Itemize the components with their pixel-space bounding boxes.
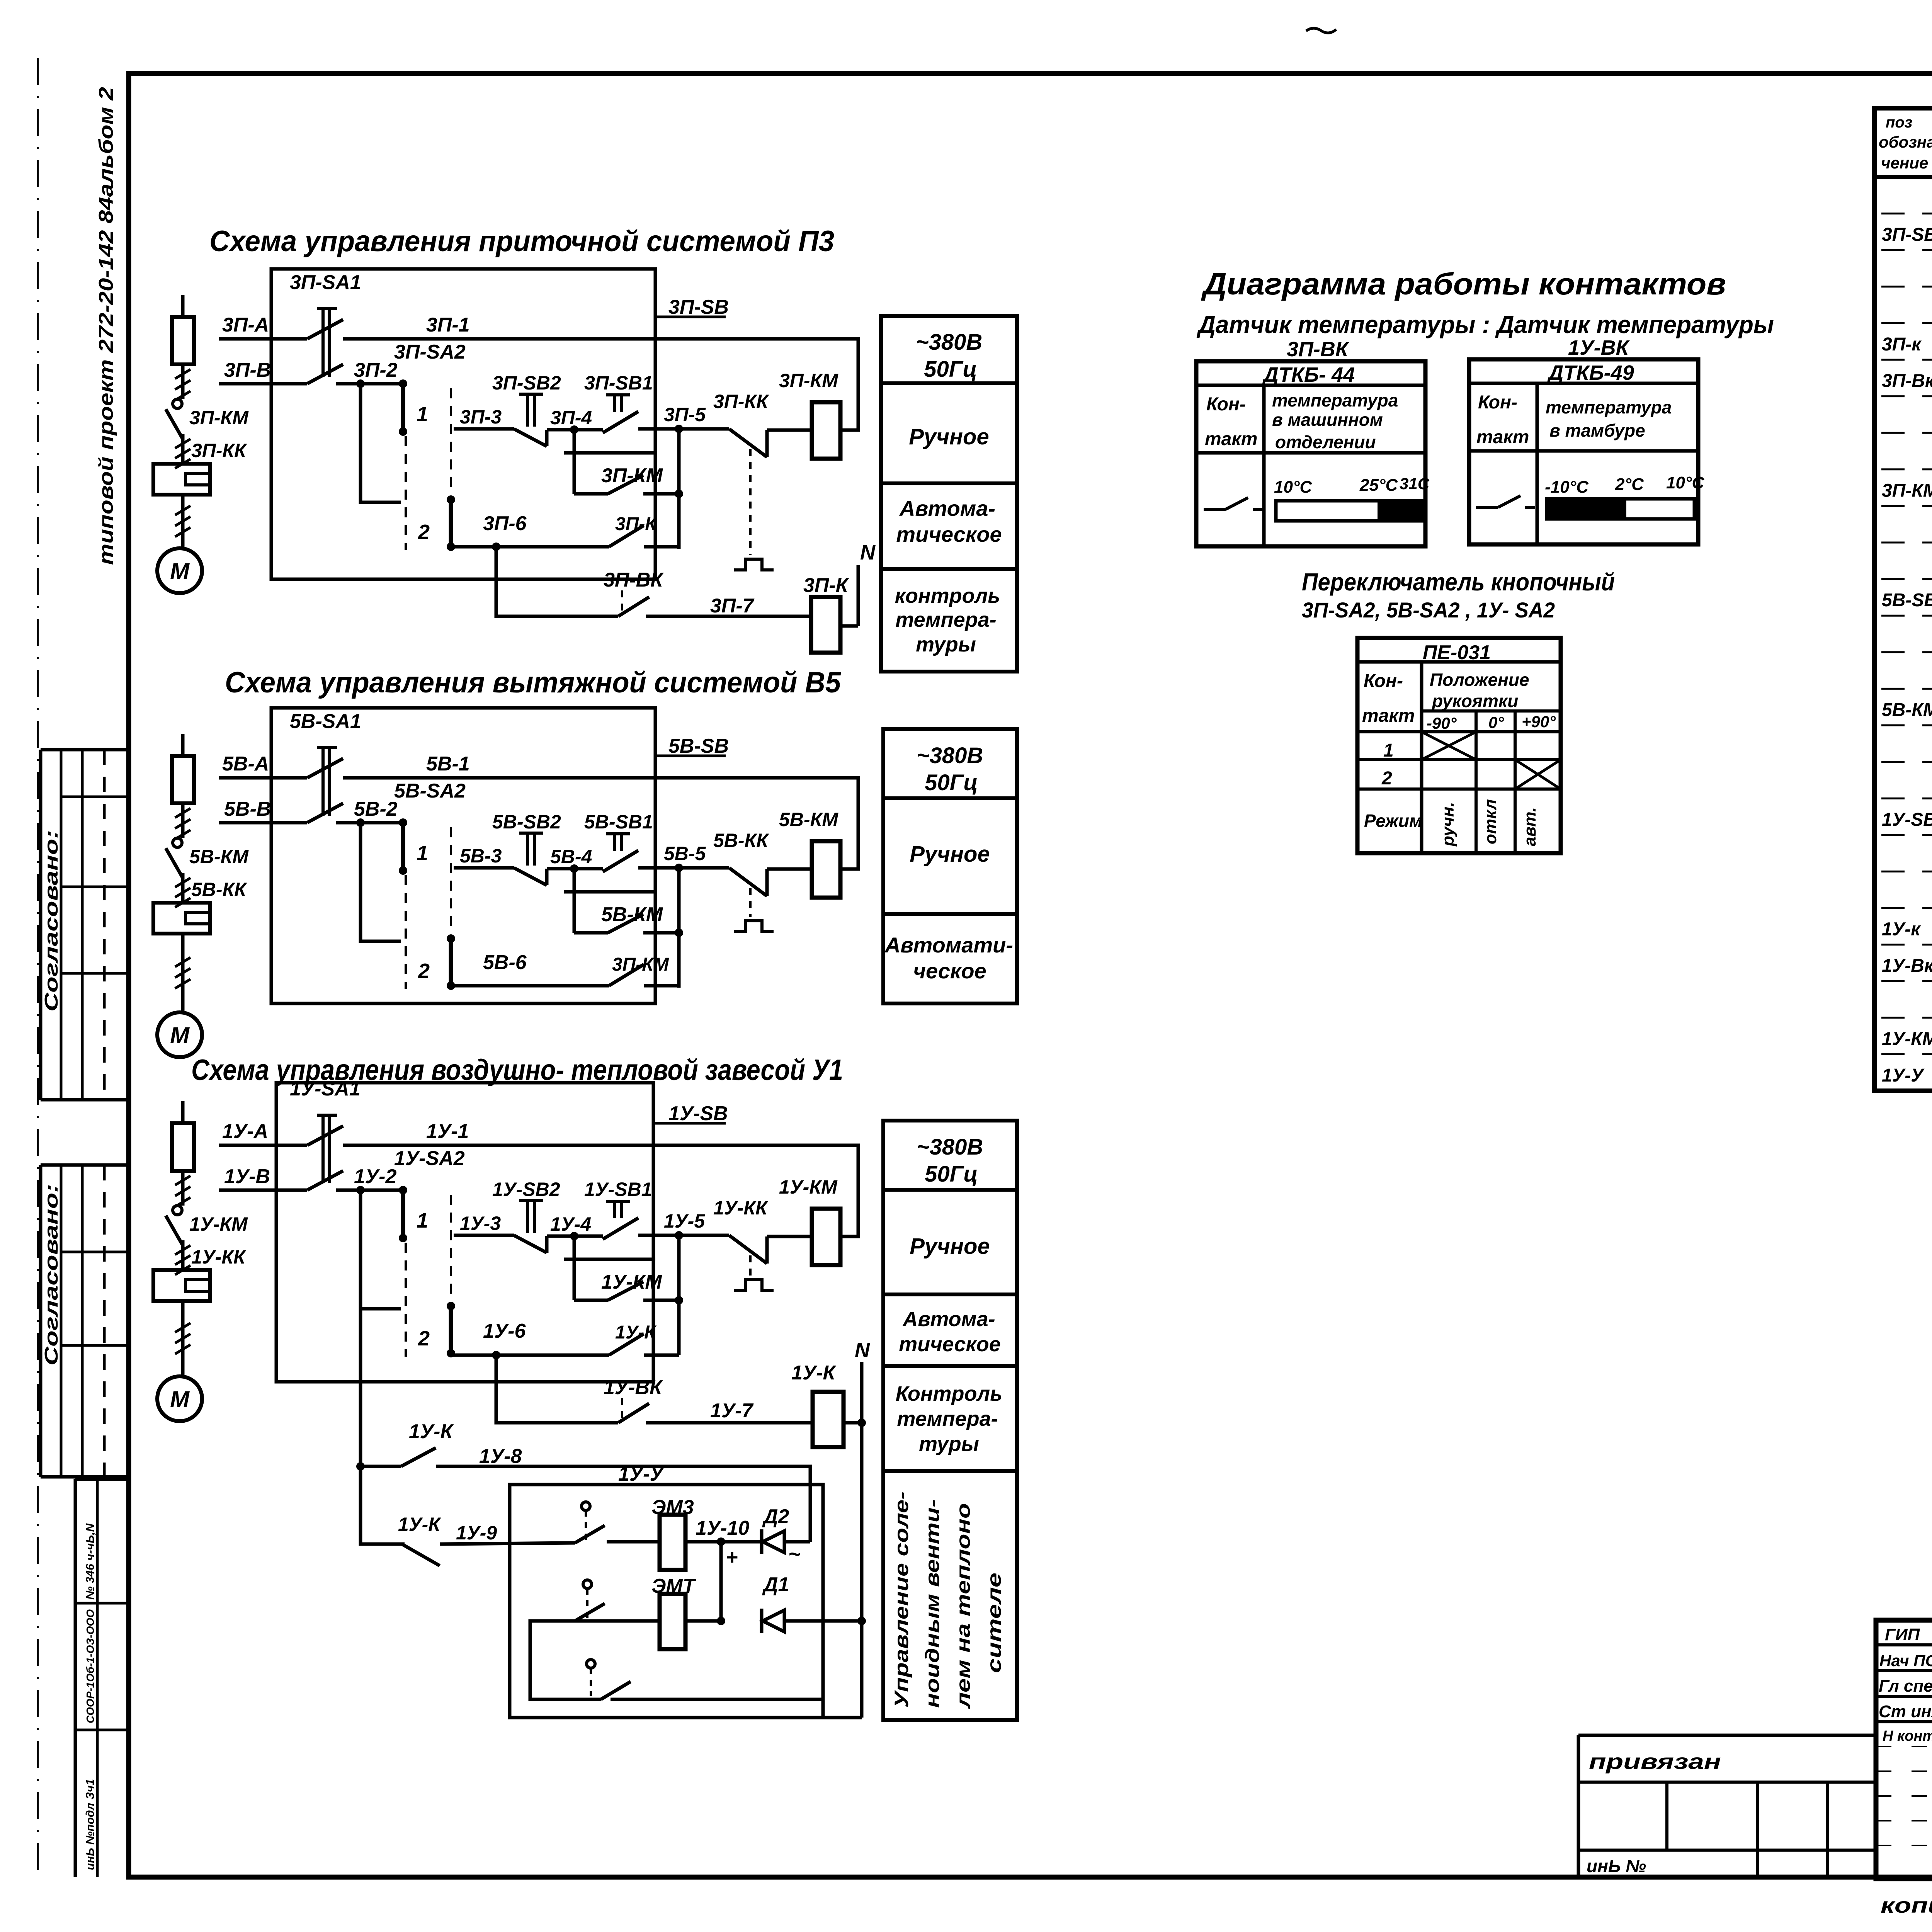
switch SA1 linkage bars bbox=[321, 748, 325, 816]
manual release symbol bbox=[734, 921, 774, 932]
table row separator (dashed) bbox=[1881, 651, 1932, 653]
svg-text:2: 2 bbox=[1381, 768, 1392, 789]
dashed link to release bbox=[749, 449, 752, 555]
push-button plunger bbox=[519, 1199, 543, 1202]
sensor table ДТКБ-49 bbox=[1469, 359, 1698, 544]
svg-text:3П-SA2, 5В-SA2 , 1У- SA2: 3П-SA2, 5В-SA2 , 1У- SA2 bbox=[1302, 598, 1555, 622]
svg-text:1У-КМ: 1У-КМ bbox=[779, 1176, 838, 1198]
svg-text:1У-SB1: 1У-SB1 bbox=[584, 1179, 652, 1200]
svg-text:0°: 0° bbox=[1488, 713, 1504, 731]
hook contact bbox=[173, 1206, 182, 1215]
SA1 blade phase B bbox=[307, 364, 343, 384]
approval block 2 (Согласовано) bbox=[41, 1163, 129, 1167]
valve limit switch a bbox=[582, 1502, 590, 1510]
svg-text:1У-9: 1У-9 bbox=[456, 1522, 497, 1544]
table row separator (dashed) bbox=[1881, 980, 1932, 982]
svg-text:поз: поз bbox=[1886, 114, 1912, 131]
table row separator (dashed) bbox=[1881, 468, 1932, 470]
svg-text:5В-КМ: 5В-КМ bbox=[601, 903, 663, 926]
svg-text:5В-3: 5В-3 bbox=[460, 845, 502, 867]
wire bbox=[181, 1247, 185, 1270]
wire bbox=[181, 434, 185, 440]
motor M bbox=[157, 1012, 202, 1057]
svg-text:5В-5: 5В-5 bbox=[664, 843, 706, 864]
scale bar with black zone bbox=[1547, 499, 1694, 519]
thermal contact blade bbox=[729, 868, 767, 896]
table row separator (dashed) bbox=[1881, 1053, 1932, 1055]
svg-text:1У-6: 1У-6 bbox=[483, 1320, 526, 1342]
dashed link to release bbox=[749, 1255, 752, 1276]
svg-text:Ручное: Ручное bbox=[910, 1234, 990, 1259]
svg-text:N: N bbox=[860, 541, 876, 564]
svg-text:3П-к: 3П-к bbox=[1882, 334, 1922, 355]
svg-text:3П-КМ: 3П-КМ bbox=[779, 370, 838, 391]
manual release symbol bbox=[734, 1280, 774, 1291]
selector table ПЕ-031 bbox=[1357, 638, 1561, 853]
switch SA1 linkage bars bbox=[321, 1116, 325, 1183]
svg-text:тическое: тическое bbox=[896, 522, 1002, 546]
push-button NO blade bbox=[603, 412, 638, 433]
svg-text:3П-SB: 3П-SB bbox=[668, 296, 729, 318]
svg-text:5В-4: 5В-4 bbox=[550, 846, 592, 867]
svg-text:обозна-: обозна- bbox=[1879, 133, 1932, 151]
wire bbox=[181, 873, 185, 879]
thermal element marks 5В-КК bbox=[175, 878, 190, 887]
svg-text:3П-КК: 3П-КК bbox=[191, 440, 247, 461]
svg-text:1У-1: 1У-1 bbox=[426, 1120, 469, 1143]
svg-text:1У-КМ: 1У-КМ bbox=[189, 1213, 248, 1235]
approval block 1 (Согласовано) bbox=[41, 748, 129, 752]
svg-text:откл: откл bbox=[1481, 799, 1500, 844]
self-hold branch down bbox=[573, 1236, 576, 1259]
sensor table ДТКБ-44 bbox=[1196, 361, 1425, 546]
svg-text:такт: такт bbox=[1205, 429, 1257, 449]
svg-text:1У-Вк: 1У-Вк bbox=[1882, 956, 1932, 976]
SA1 blade phase A bbox=[307, 759, 343, 778]
svg-text:3П-SB1: 3П-SB1 bbox=[584, 372, 653, 394]
valve limit switch c bbox=[587, 1660, 595, 1668]
fuse FU 1У bbox=[172, 1123, 194, 1171]
svg-text:3П-КМ: 3П-КМ bbox=[601, 464, 663, 487]
svg-text:50Гц: 50Гц bbox=[924, 357, 977, 382]
svg-text:1У-SB2: 1У-SB2 bbox=[492, 1179, 560, 1200]
inventory stamp block bbox=[75, 1478, 129, 1481]
thermal element marks 1У-КК bbox=[175, 1245, 190, 1255]
contactor coil bbox=[811, 597, 840, 653]
SA1 blade phase A bbox=[307, 1126, 343, 1145]
svg-text:1У-ВК: 1У-ВК bbox=[604, 1376, 663, 1399]
svg-text:Кон-: Кон- bbox=[1206, 394, 1246, 415]
branch rail from phase B bbox=[356, 379, 365, 388]
svg-text:Режим: Режим bbox=[1364, 811, 1422, 831]
contactor main contact 3П-КМ bbox=[166, 409, 183, 439]
fuse FU 3П bbox=[172, 317, 194, 364]
svg-text:Д2: Д2 bbox=[762, 1505, 789, 1528]
wire with flexible marks bbox=[181, 1171, 185, 1206]
left extension block (privyazan) bbox=[1578, 1734, 1876, 1737]
svg-text:1У-У: 1У-У bbox=[618, 1463, 665, 1485]
svg-text:Гл спец: Гл спец bbox=[1879, 1677, 1932, 1696]
table row separator (dashed) bbox=[1881, 542, 1932, 544]
table row separator (dashed) bbox=[1881, 834, 1932, 836]
contactor main contact 5В-КМ bbox=[166, 848, 183, 878]
wire from Д2 up to 1У-8 bbox=[784, 1540, 810, 1544]
table row separator (dashed) bbox=[1881, 286, 1932, 287]
manual release symbol bbox=[734, 559, 774, 570]
table row separator (dashed) bbox=[1881, 249, 1932, 251]
svg-text:1У-КМ: 1У-КМ bbox=[1882, 1029, 1932, 1049]
SA1 blade phase B bbox=[307, 1171, 343, 1190]
svg-text:2: 2 bbox=[418, 520, 430, 544]
table row separator (dashed) bbox=[1881, 322, 1932, 324]
svg-text:3П-6: 3П-6 bbox=[483, 512, 527, 535]
svg-text:3П-SA2: 3П-SA2 bbox=[394, 341, 466, 363]
svg-text:Диаграмма работы контактов: Диаграмма работы контактов bbox=[1201, 267, 1726, 301]
table row separator (dashed) bbox=[1881, 213, 1932, 214]
branch down to temperature control row bbox=[496, 547, 618, 616]
table row separator (dashed) bbox=[1881, 688, 1932, 690]
svg-text:1У-к: 1У-к bbox=[1882, 919, 1921, 940]
right vertical link bbox=[677, 868, 681, 988]
svg-text:в машинном: в машинном bbox=[1272, 410, 1383, 430]
wire to N bbox=[840, 624, 858, 628]
wire with flexible marks bbox=[181, 364, 185, 399]
svg-text:Кон-: Кон- bbox=[1478, 392, 1517, 413]
push-button NO blade bbox=[603, 850, 638, 872]
selector SA2 contact 1 bbox=[399, 818, 407, 827]
table row separator (dashed) bbox=[1881, 1017, 1932, 1019]
svg-text:сителе: сителе bbox=[983, 1573, 1005, 1673]
thermal contact blade bbox=[729, 1235, 767, 1264]
self-hold branch down bbox=[573, 430, 576, 453]
svg-text:1У-10: 1У-10 bbox=[696, 1517, 749, 1539]
svg-text:+90°: +90° bbox=[1522, 713, 1556, 731]
right vertical link bbox=[677, 429, 681, 549]
svg-text:температура: температура bbox=[1546, 397, 1672, 417]
svg-text:1У-КК: 1У-КК bbox=[713, 1197, 769, 1219]
svg-text:~380В: ~380В bbox=[917, 743, 983, 768]
table row separator (dashed) bbox=[1881, 359, 1932, 361]
branch down to temperature control row bbox=[496, 1355, 618, 1423]
svg-text:3П-ВК: 3П-ВК bbox=[1287, 338, 1350, 361]
push-button plunger bbox=[519, 393, 543, 396]
selector SA2 contact 2 bbox=[447, 934, 455, 943]
svg-text:3П-5: 3П-5 bbox=[664, 404, 706, 425]
svg-text:СООР-1Об-1-ОЗ-ООО: СООР-1Об-1-ОЗ-ООО bbox=[84, 1609, 96, 1723]
svg-text:50Гц: 50Гц bbox=[925, 770, 978, 795]
svg-text:1У-У: 1У-У bbox=[1882, 1065, 1925, 1086]
svg-text:такт: такт bbox=[1362, 706, 1415, 726]
svg-text:5В-SB2: 5В-SB2 bbox=[492, 811, 561, 833]
svg-text:1У-В: 1У-В bbox=[224, 1165, 270, 1188]
svg-text:5В-КК: 5В-КК bbox=[713, 830, 769, 851]
svg-text:ДТКБ-49: ДТКБ-49 bbox=[1547, 361, 1634, 384]
SA1 blade phase A bbox=[307, 320, 343, 339]
push-button plunger bbox=[606, 832, 630, 835]
svg-text:1У-SA1: 1У-SA1 bbox=[290, 1078, 361, 1100]
contactor main contact 1У-КМ bbox=[166, 1216, 183, 1245]
svg-text:Схема управления вытяжной сист: Схема управления вытяжной системой В5 bbox=[225, 666, 842, 699]
push-button NO blade bbox=[603, 1218, 638, 1239]
svg-text:3П-КМ: 3П-КМ bbox=[1882, 480, 1932, 501]
wire to N rail bbox=[844, 1421, 862, 1425]
legend box U1 bbox=[883, 1121, 1017, 1720]
table row separator (dashed) bbox=[1881, 505, 1932, 507]
wire 1У-8 bbox=[436, 1466, 810, 1542]
hook contact bbox=[173, 838, 182, 847]
SA2 mechanical link dashed 1 bbox=[405, 436, 407, 550]
svg-text:1: 1 bbox=[1383, 740, 1394, 761]
svg-text:3П-SB: 3П-SB bbox=[1882, 224, 1932, 245]
thermal contact blade bbox=[729, 429, 767, 457]
svg-text:Нач ПО-4: Нач ПО-4 bbox=[1879, 1651, 1932, 1670]
table row separator (dashed) bbox=[1881, 395, 1932, 397]
svg-text:ручн.: ручн. bbox=[1439, 802, 1458, 847]
svg-text:такт: такт bbox=[1476, 427, 1529, 447]
svg-text:инЬ №подл Зч1: инЬ №подл Зч1 bbox=[84, 1779, 97, 1870]
title block rows left part bbox=[1876, 1643, 1932, 1646]
svg-text:Ручное: Ручное bbox=[910, 842, 990, 867]
svg-text:5В-SB: 5В-SB bbox=[1882, 590, 1932, 611]
svg-text:1У-КМ: 1У-КМ bbox=[601, 1271, 662, 1293]
contact state symbol bbox=[1204, 508, 1226, 511]
svg-text:1У-7: 1У-7 bbox=[710, 1400, 753, 1422]
wire to ЭМТ branch bbox=[530, 1621, 660, 1699]
svg-text:ГИП: ГИП bbox=[1885, 1625, 1920, 1644]
selector SA2 contact 1 bbox=[399, 1186, 407, 1194]
table row separator (dashed) bbox=[1881, 432, 1932, 434]
selector SA2 contact 2 bbox=[447, 1302, 455, 1310]
box bottom wire bbox=[510, 1716, 862, 1719]
wire bbox=[181, 1240, 185, 1247]
svg-text:Управление соле-: Управление соле- bbox=[891, 1492, 912, 1708]
fuse FU 5В bbox=[172, 756, 194, 803]
svg-text:5В-В: 5В-В bbox=[224, 798, 271, 820]
svg-text:5В-6: 5В-6 bbox=[483, 951, 527, 974]
svg-text:М: М bbox=[170, 1386, 190, 1412]
svg-text:1: 1 bbox=[417, 842, 428, 865]
svg-text:5В-SB1: 5В-SB1 bbox=[584, 811, 653, 833]
control post boundary box 3П-SB bbox=[271, 269, 655, 579]
selector SA2 contact 2 bbox=[447, 495, 455, 504]
motor M bbox=[157, 1376, 202, 1421]
svg-text:Кон-: Кон- bbox=[1364, 671, 1403, 691]
svg-text:Контроль: Контроль bbox=[896, 1382, 1002, 1405]
SA2 mechanical link dashed 1 bbox=[405, 1243, 407, 1357]
wire bbox=[181, 879, 185, 903]
svg-text:1У-SB: 1У-SB bbox=[1882, 810, 1932, 830]
svg-text:лем на теплоно: лем на теплоно bbox=[952, 1503, 974, 1709]
svg-text:50Гц: 50Гц bbox=[925, 1162, 978, 1187]
svg-text:№ 346 ч-чЬ,N: № 346 ч-чЬ,N bbox=[84, 1523, 97, 1600]
thermal relay box bbox=[153, 903, 210, 934]
SA2 mechanical link dashed 2 bbox=[450, 388, 452, 495]
svg-text:5В-SA2: 5В-SA2 bbox=[394, 780, 466, 802]
svg-text:3П-КМ: 3П-КМ bbox=[189, 407, 249, 429]
svg-text:1: 1 bbox=[417, 403, 428, 426]
relay contact blade bbox=[609, 964, 644, 986]
svg-text:темпера-: темпера- bbox=[897, 1407, 998, 1430]
svg-text:3П-КК: 3П-КК bbox=[713, 391, 769, 412]
svg-text:3П-SB2: 3П-SB2 bbox=[492, 372, 561, 394]
svg-text:31С: 31С bbox=[1400, 474, 1430, 493]
svg-text:+: + bbox=[726, 1546, 738, 1569]
relay contact blade bbox=[608, 1282, 643, 1300]
svg-text:Переключатель кнопочный: Переключатель кнопочный bbox=[1302, 568, 1615, 596]
wire with flexible marks bbox=[181, 495, 185, 548]
motor M bbox=[157, 548, 202, 593]
svg-text:в тамбуре: в тамбуре bbox=[1549, 420, 1645, 440]
hook contact bbox=[173, 399, 182, 408]
self-hold branch down bbox=[573, 869, 576, 892]
svg-text:2: 2 bbox=[418, 1327, 430, 1350]
SA2 mechanical link dashed 1 bbox=[405, 875, 407, 989]
svg-text:1У-2: 1У-2 bbox=[354, 1165, 396, 1188]
svg-text:туры: туры bbox=[916, 633, 976, 656]
contactor coil bbox=[813, 1392, 844, 1447]
svg-text:чение: чение bbox=[1881, 154, 1928, 172]
svg-text:-10°С: -10°С bbox=[1545, 478, 1589, 497]
valve limit switch b bbox=[583, 1580, 592, 1588]
svg-text:темпера-: темпера- bbox=[895, 608, 996, 631]
thermal element marks 3П-КК bbox=[175, 439, 190, 448]
branch rail from phase B bbox=[356, 1186, 365, 1194]
left margin dash-dot line bbox=[37, 58, 39, 1878]
contact state symbol bbox=[1476, 506, 1498, 509]
svg-text:2°С: 2°С bbox=[1615, 475, 1644, 494]
table row separator (dashed) bbox=[1881, 871, 1932, 872]
control post boundary box 5В-SB bbox=[271, 708, 655, 1003]
SA2 mechanical link dashed 2 bbox=[450, 1195, 452, 1301]
wire bbox=[181, 440, 185, 464]
SA1 blade phase B bbox=[307, 803, 343, 823]
table row separator (dashed) bbox=[1881, 761, 1932, 763]
contactor coil bbox=[812, 1209, 840, 1265]
wire with flexible marks bbox=[181, 1301, 185, 1376]
svg-text:N: N bbox=[855, 1338, 870, 1362]
relay contact blade bbox=[401, 1448, 436, 1466]
svg-text:3П-А: 3П-А bbox=[222, 314, 269, 336]
thermal relay box bbox=[153, 1270, 210, 1301]
svg-text:5В-SB: 5В-SB bbox=[668, 735, 729, 757]
dashed link to release bbox=[749, 888, 752, 917]
right vertical link bbox=[677, 1235, 681, 1355]
svg-text:3П-В: 3П-В bbox=[224, 359, 271, 381]
svg-text:10°С: 10°С bbox=[1666, 473, 1705, 492]
relay contact blade bbox=[608, 475, 643, 494]
wire with flexible marks bbox=[181, 803, 185, 838]
svg-text:5В-SA1: 5В-SA1 bbox=[290, 710, 361, 733]
table row separator (dashed) bbox=[1881, 798, 1932, 799]
wire: feeder phase drop 3П bbox=[181, 295, 185, 317]
svg-text:ческое: ческое bbox=[913, 959, 986, 983]
svg-text:Автома-: Автома- bbox=[902, 1308, 995, 1331]
scanner artifact tick top middle bbox=[1306, 28, 1336, 33]
wire 1У-9 bbox=[361, 1543, 402, 1546]
svg-text:1У-4: 1У-4 bbox=[550, 1213, 591, 1235]
legend box P3 bbox=[881, 316, 1017, 672]
svg-text:привязан: привязан bbox=[1589, 1749, 1721, 1774]
svg-text:3П-3: 3П-3 bbox=[460, 406, 502, 428]
svg-text:отделении: отделении bbox=[1275, 432, 1376, 452]
svg-text:5В-КМ: 5В-КМ bbox=[189, 846, 249, 867]
svg-text:копировал: копировал bbox=[1881, 1893, 1932, 1917]
svg-text:3П-SA1: 3П-SA1 bbox=[290, 271, 361, 294]
wire: feeder phase drop 5В bbox=[181, 734, 185, 756]
svg-text:5В-2: 5В-2 bbox=[354, 798, 398, 820]
svg-text:1У-А: 1У-А bbox=[222, 1120, 268, 1143]
svg-text:5В-КМ: 5В-КМ bbox=[779, 809, 838, 830]
relay contact blade bbox=[608, 914, 643, 933]
svg-text:1У-5: 1У-5 bbox=[664, 1210, 705, 1232]
svg-text:1У-ВК: 1У-ВК bbox=[1568, 336, 1630, 359]
svg-text:3П-1: 3П-1 bbox=[426, 314, 470, 336]
link from 1У-10 down bbox=[719, 1542, 723, 1621]
svg-text:ноидным венти-: ноидным венти- bbox=[922, 1499, 943, 1708]
push-button plunger bbox=[606, 393, 630, 396]
SA2 mechanical link dashed 2 bbox=[450, 827, 452, 934]
svg-text:Схема управления приточной сис: Схема управления приточной системой П3 bbox=[209, 225, 834, 258]
svg-text:2: 2 bbox=[418, 959, 430, 983]
svg-text:Автомати-: Автомати- bbox=[884, 933, 1013, 957]
svg-text:3П-К: 3П-К bbox=[803, 574, 849, 597]
table row separator (dashed) bbox=[1881, 615, 1932, 617]
svg-text:10°С: 10°С bbox=[1274, 478, 1313, 497]
svg-text:1У-SB: 1У-SB bbox=[668, 1102, 728, 1125]
svg-text:25°С: 25°С bbox=[1359, 476, 1398, 495]
thermal relay box bbox=[153, 464, 210, 495]
svg-text:Датчик температуры : Датчик те: Датчик температуры : Датчик температуры bbox=[1196, 311, 1774, 338]
svg-text:3П-Вк: 3П-Вк bbox=[1882, 371, 1932, 391]
svg-text:3П-7: 3П-7 bbox=[710, 595, 755, 617]
selector SA2 contact 1 bbox=[399, 379, 407, 388]
svg-text:1: 1 bbox=[417, 1209, 428, 1232]
svg-text:~: ~ bbox=[788, 1543, 801, 1566]
svg-text:Согласовано:: Согласовано: bbox=[41, 1184, 62, 1366]
relay contact blade bbox=[609, 526, 644, 547]
wire: feeder phase drop 1У bbox=[181, 1101, 185, 1123]
push-button plunger bbox=[519, 832, 543, 835]
svg-text:3П-2: 3П-2 bbox=[354, 359, 398, 381]
svg-text:Ст инж: Ст инж bbox=[1879, 1702, 1932, 1721]
svg-text:Н контр: Н контр bbox=[1883, 1728, 1932, 1744]
table row separator (dashed) bbox=[1881, 944, 1932, 946]
svg-text:-90°: -90° bbox=[1427, 714, 1457, 732]
table row separator (dashed) bbox=[1881, 578, 1932, 580]
svg-text:М: М bbox=[170, 558, 190, 584]
svg-text:5В-КК: 5В-КК bbox=[191, 879, 247, 900]
svg-text:5В-1: 5В-1 bbox=[426, 753, 470, 775]
svg-text:1У-SA2: 1У-SA2 bbox=[394, 1147, 465, 1170]
svg-text:~380В: ~380В bbox=[916, 330, 983, 355]
svg-text:типовой проект 272-20-142 84а: типовой проект 272-20-142 84альбом 2 bbox=[95, 87, 117, 565]
svg-text:~380В: ~380В bbox=[917, 1134, 983, 1160]
legend box B5 bbox=[883, 729, 1017, 1003]
svg-text:Автома-: Автома- bbox=[899, 496, 995, 520]
control post boundary box 1У-SB bbox=[276, 1083, 653, 1382]
svg-text:Д1: Д1 bbox=[762, 1573, 789, 1596]
table row separator (dashed) bbox=[1881, 907, 1932, 909]
svg-text:1У-К: 1У-К bbox=[398, 1514, 441, 1535]
svg-text:1У-КК: 1У-КК bbox=[191, 1246, 247, 1268]
svg-text:1У-8: 1У-8 bbox=[479, 1445, 522, 1468]
svg-text:3П-ВК: 3П-ВК bbox=[604, 569, 664, 591]
svg-text:1У-К: 1У-К bbox=[791, 1362, 836, 1384]
svg-text:туры: туры bbox=[919, 1432, 979, 1456]
svg-text:тическое: тическое bbox=[899, 1333, 1001, 1356]
svg-text:5В-А: 5В-А bbox=[222, 753, 269, 775]
svg-text:ДТКБ- 44: ДТКБ- 44 bbox=[1262, 363, 1355, 386]
